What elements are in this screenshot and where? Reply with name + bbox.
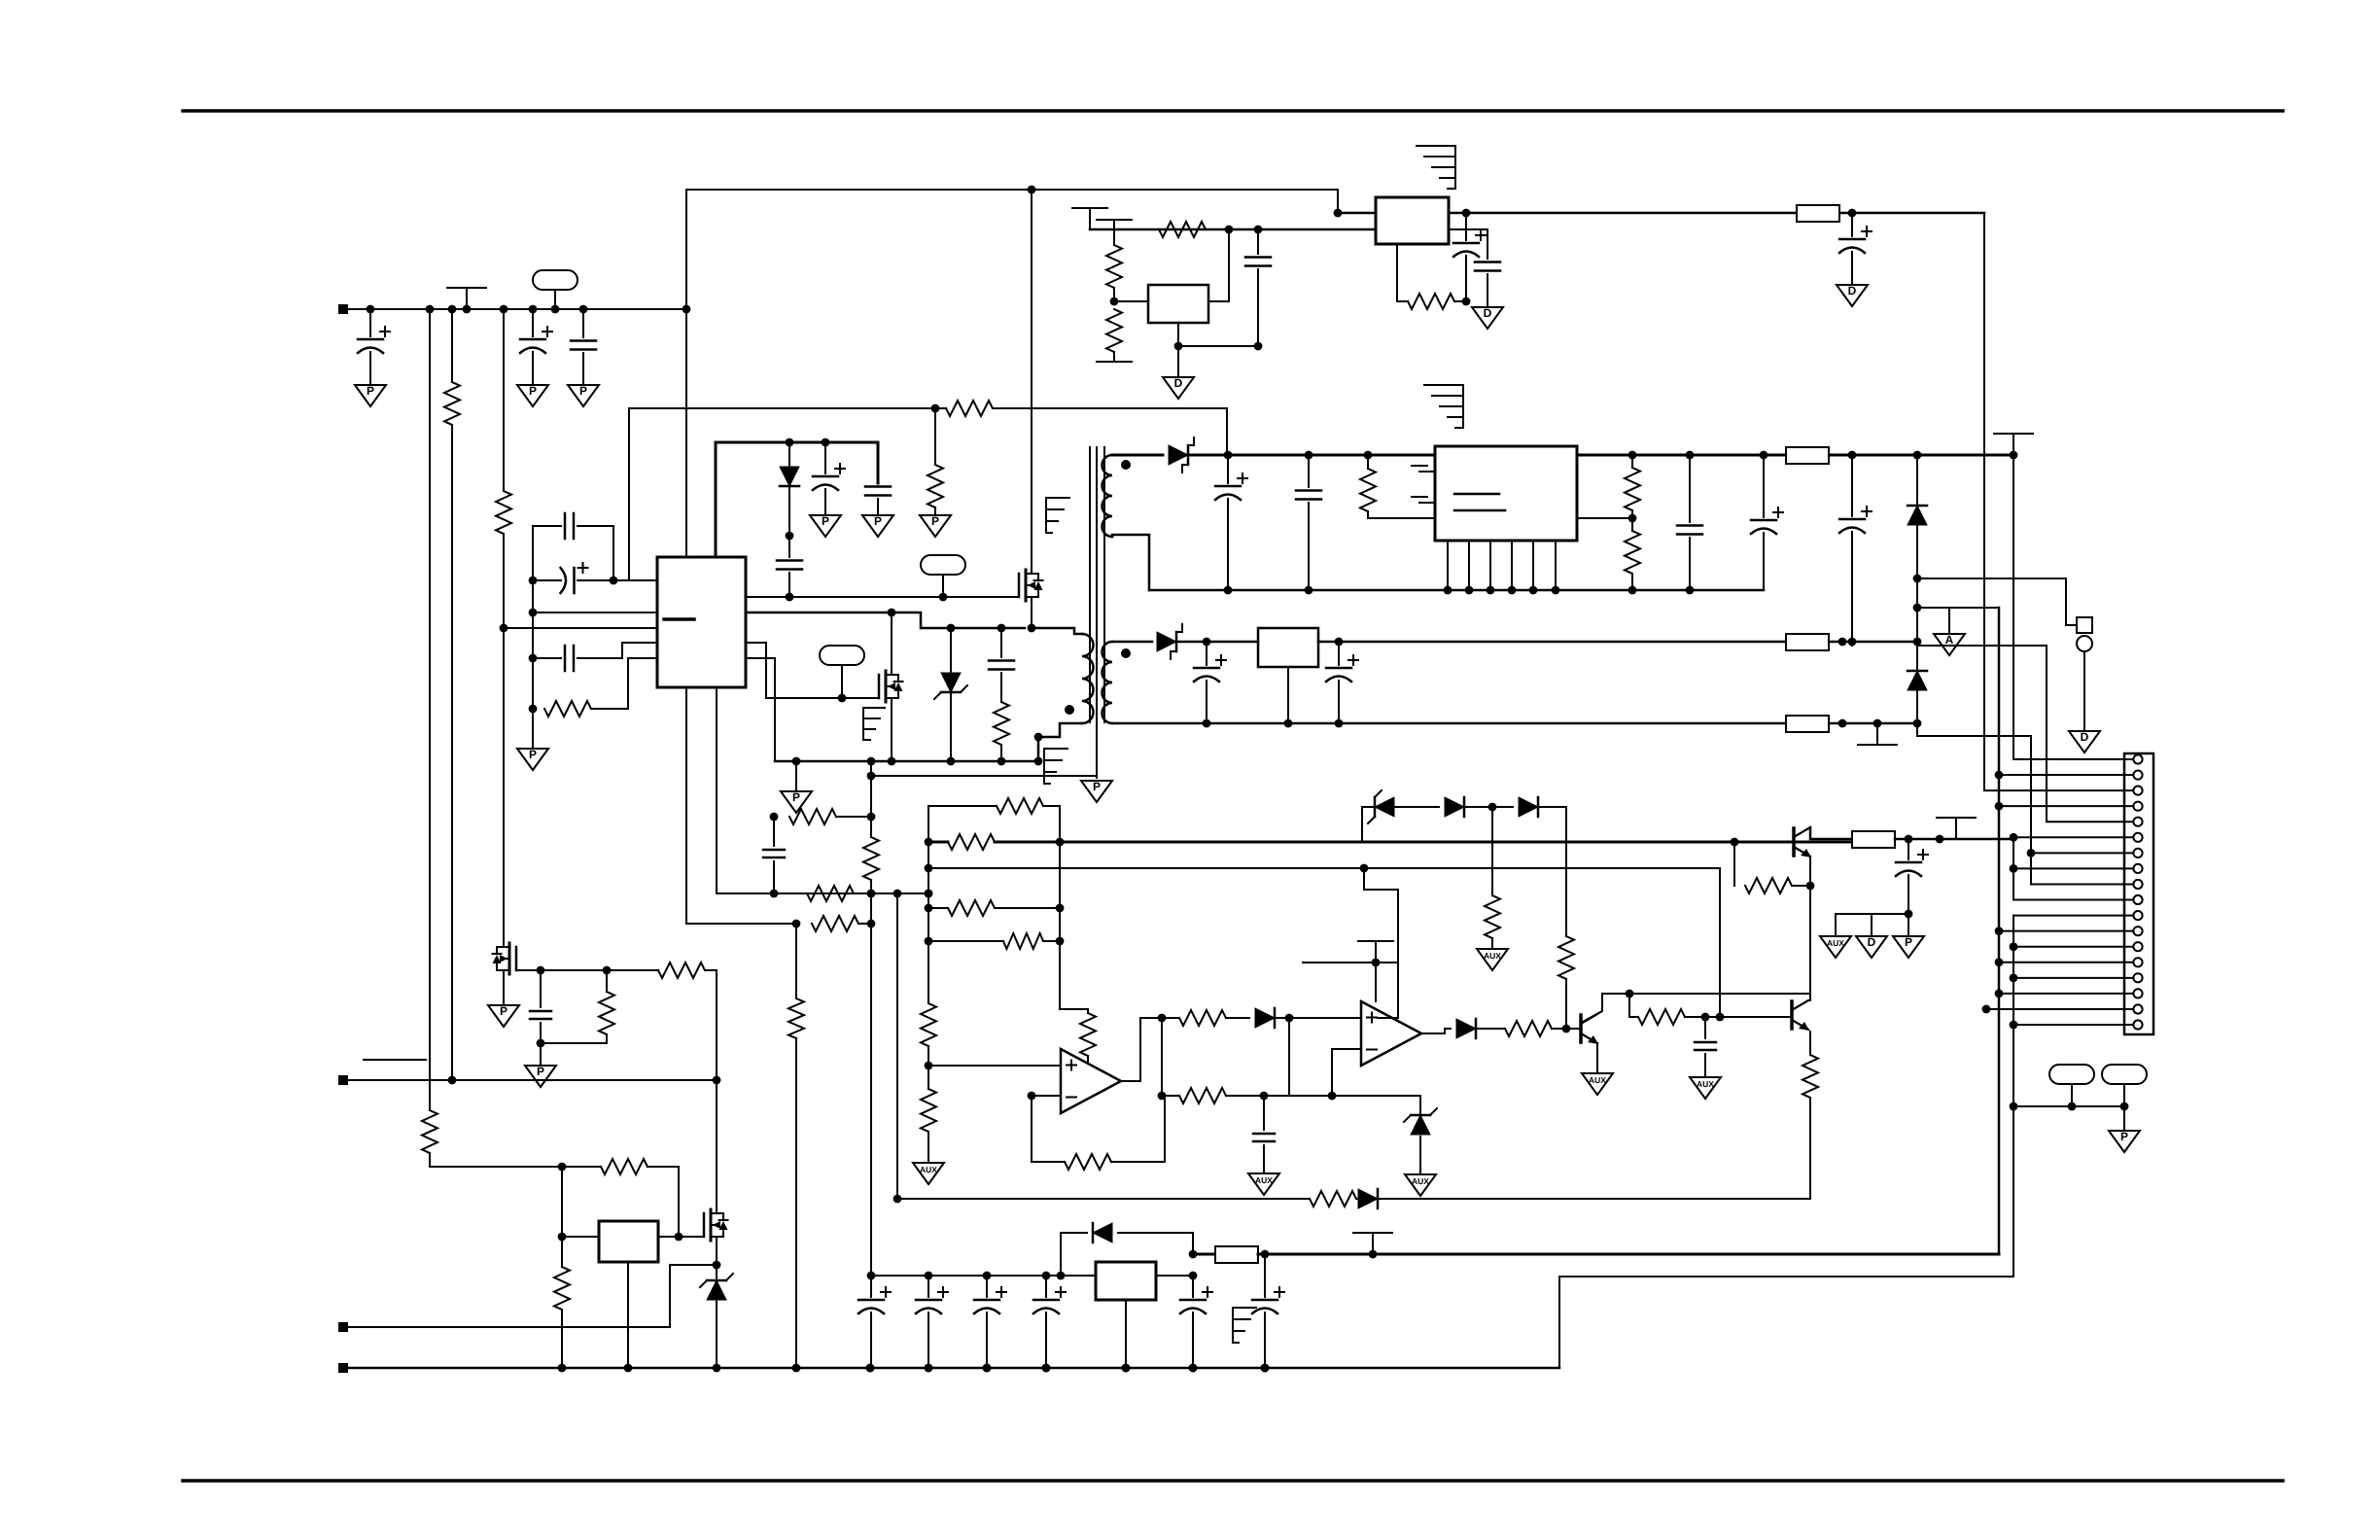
svg-text:P: P (529, 748, 537, 761)
svg-text:D: D (1484, 306, 1492, 320)
svg-text:P: P (529, 384, 537, 398)
svg-text:AUX: AUX (1697, 1079, 1714, 1089)
svg-text:P: P (579, 384, 587, 398)
svg-text:P: P (874, 514, 882, 528)
svg-text:P: P (2120, 1130, 2128, 1143)
svg-text:AUX: AUX (1589, 1075, 1606, 1085)
svg-text:P: P (822, 514, 829, 528)
svg-text:P: P (1093, 780, 1101, 793)
svg-text:P: P (1905, 935, 1912, 949)
svg-text:P: P (500, 1004, 507, 1018)
svg-text:D: D (2081, 730, 2089, 744)
svg-text:P: P (931, 514, 939, 528)
svg-text:D: D (1848, 284, 1857, 297)
svg-text:A: A (1945, 633, 1954, 647)
svg-text:D: D (1174, 376, 1183, 390)
svg-text:AUX: AUX (1827, 938, 1844, 948)
svg-text:P: P (792, 790, 800, 804)
svg-text:AUX: AUX (920, 1165, 937, 1174)
svg-text:AUX: AUX (1484, 951, 1501, 961)
svg-text:AUX: AUX (1255, 1175, 1273, 1185)
svg-text:P: P (537, 1065, 544, 1078)
svg-text:P: P (367, 384, 374, 398)
svg-text:D: D (1868, 935, 1876, 949)
svg-text:AUX: AUX (1412, 1176, 1429, 1186)
